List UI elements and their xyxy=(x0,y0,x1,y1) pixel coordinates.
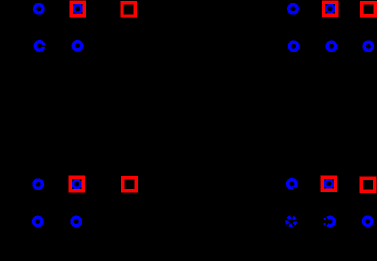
pad BL2 (round pad under square pad, pin 1) xyxy=(73,180,81,188)
pad BR5 (round pad, ring open to the west) xyxy=(327,217,334,225)
pad TL5 (round pad) xyxy=(73,42,81,50)
pad TR2 (round pad under square pad, pin 1) xyxy=(326,5,334,13)
pad BL4 (round pad) xyxy=(34,217,42,225)
pad BR1 ring gap xyxy=(293,187,296,190)
pad TL4 ring gap xyxy=(41,45,46,47)
pad TR6 (round pad) xyxy=(364,42,372,50)
pad BL2 opening corner gaps xyxy=(72,179,82,189)
pad TL2 opening corner gaps xyxy=(73,4,83,14)
pad BL5 (round pad) xyxy=(72,217,80,225)
pad TL3 (square pad, front copper) xyxy=(122,3,135,16)
pad BR6 (round pad) xyxy=(364,217,372,225)
pad TL2 (round pad under square pad, pin 1) xyxy=(74,5,82,13)
pad BL3 (square pad, front copper) xyxy=(123,178,136,191)
pad TR4 (round pad) xyxy=(290,42,298,50)
pad BR3 (square pad, front copper) xyxy=(361,178,374,191)
pad BL2 square outline (front copper pin-1 pad) xyxy=(70,177,83,190)
pad TL4 (round pad, ring broken on east side) xyxy=(35,42,43,50)
pad TR3 (square pad, front copper) xyxy=(362,3,375,16)
pad BR2 (round pad under square pad, pin 1) xyxy=(325,180,333,188)
pad BR2 square outline (front copper pin-1 pad) xyxy=(322,177,335,190)
pad TR5 (round pad) xyxy=(327,42,335,50)
pad TL1 (round pad, back copper) xyxy=(35,5,43,13)
pad TR2 square outline (front copper pin-1 pad) xyxy=(324,2,337,15)
pad BR4 (round pad, fragmented ring) xyxy=(287,217,295,225)
pad TL2 square outline (front copper pin-1 pad) xyxy=(71,2,84,15)
pad BL1 (round pad) xyxy=(34,180,42,188)
pad BR2 opening corner gaps xyxy=(324,179,334,189)
pad BR1 (round pad, small ring gap at lower right) xyxy=(288,180,296,188)
pad TR1 (round pad) xyxy=(289,5,297,13)
pad BR5 ring fragments west xyxy=(324,218,326,220)
pad TR2 opening corner gaps xyxy=(325,4,335,14)
